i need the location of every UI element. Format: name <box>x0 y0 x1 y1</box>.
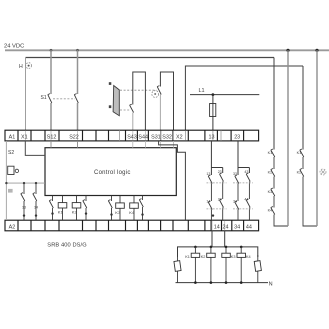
fuse F1 <box>210 104 216 117</box>
svg-text:S43: S43 <box>127 134 137 140</box>
wire loop S43-S44 <box>133 72 146 130</box>
svg-text:13: 13 <box>206 172 210 176</box>
contact reset tap 2 <box>33 183 37 220</box>
svg-text:24: 24 <box>223 224 229 230</box>
wire link dashed <box>233 182 253 184</box>
contact K2 aux <box>83 196 87 220</box>
svg-text:K2: K2 <box>72 210 78 215</box>
contact K2 out b <box>220 199 224 220</box>
svg-text:44: 44 <box>246 224 252 230</box>
wire N line <box>176 282 269 284</box>
node magnet marker b <box>109 105 112 108</box>
terminal row top <box>5 130 259 141</box>
contact K1 aux <box>49 196 53 220</box>
wire magnet link lower dashed <box>120 109 131 111</box>
contact K4 fb <box>271 207 288 227</box>
svg-text:N: N <box>269 281 273 287</box>
contact K4 aux <box>139 196 143 220</box>
svg-text:S2: S2 <box>8 150 14 156</box>
svg-text:44: 44 <box>244 198 248 202</box>
svg-text:23: 23 <box>218 170 222 174</box>
svg-text:K4: K4 <box>129 210 135 215</box>
svg-text:K4: K4 <box>246 255 251 259</box>
svg-text:13: 13 <box>209 134 215 140</box>
node junction L1-fuse <box>212 93 215 96</box>
wire load top line <box>178 247 258 257</box>
contact K2 out d <box>246 199 250 220</box>
coil K4 <box>133 196 135 220</box>
lamp H on X1 wire <box>19 63 32 70</box>
wire return to rail 2 <box>316 50 318 226</box>
control logic box U1 <box>45 148 176 196</box>
coil K4 load <box>240 247 242 283</box>
svg-text:24 VDC: 24 VDC <box>4 43 24 49</box>
wire 24 stub <box>224 231 226 247</box>
svg-text:A2: A2 <box>9 224 16 230</box>
coil K1 <box>62 196 64 220</box>
contact K1 out b <box>208 201 212 220</box>
wire A1-A2 left drop <box>5 141 7 220</box>
contact K1 out d <box>235 201 239 220</box>
wire link dashed <box>207 182 227 184</box>
output contact group 23-24 <box>233 141 253 220</box>
contact S1 channel 2 <box>74 94 78 103</box>
contact S2 upper on S31 leg <box>157 86 161 95</box>
svg-text:K4: K4 <box>268 208 273 212</box>
wire return to rail <box>287 50 289 226</box>
button S2 symbol <box>8 166 14 174</box>
contact reset tap 1 <box>21 183 25 220</box>
svg-text:43: 43 <box>244 170 248 174</box>
svg-text:S31: S31 <box>151 134 161 140</box>
svg-text:14: 14 <box>214 224 220 230</box>
svg-text:34: 34 <box>234 224 240 230</box>
varistor left <box>177 255 179 283</box>
contact K3 fb <box>271 188 275 208</box>
actuator magnet S2 parallelogram <box>113 86 119 116</box>
node junction right1 rail <box>286 49 289 52</box>
svg-text:33: 33 <box>233 172 237 176</box>
load circuit <box>174 231 273 287</box>
wire magnet link upper dashed <box>120 89 157 91</box>
svg-text:13: 13 <box>22 206 26 210</box>
contact S2 lower on S43 leg <box>130 104 134 112</box>
contact K2 out c <box>246 173 250 199</box>
svg-text:H: H <box>19 64 23 70</box>
contact K3 aux <box>108 196 112 220</box>
feedback chain X2 with K contacts <box>297 50 317 226</box>
coil K1 load <box>194 247 196 283</box>
terminal row bottom <box>5 220 259 231</box>
contact K2 fb2 <box>300 169 317 227</box>
svg-text:K2: K2 <box>297 170 302 174</box>
svg-text:14: 14 <box>34 206 38 210</box>
wire S12 drop <box>50 50 52 130</box>
svg-text:K2: K2 <box>268 170 273 174</box>
lamp right dashed circle <box>320 169 326 175</box>
contact K1 out c <box>235 175 239 201</box>
svg-text:S12: S12 <box>47 134 57 140</box>
svg-text:S44: S44 <box>138 134 148 140</box>
svg-text:SRB 400 DS/G: SRB 400 DS/G <box>47 243 86 249</box>
button S2 plunger <box>8 189 13 193</box>
svg-text:X2: X2 <box>176 134 183 140</box>
svg-text:S22: S22 <box>69 134 79 140</box>
lamp indicator near S31 contact dashed circle <box>152 91 159 98</box>
svg-text:X1: X1 <box>21 134 28 140</box>
svg-text:K3: K3 <box>231 255 236 259</box>
contact K1 out a <box>208 175 212 201</box>
svg-text:24: 24 <box>218 198 222 202</box>
wire loop S31-S32 <box>160 72 173 130</box>
wire step X2 area <box>159 141 186 220</box>
wire X1 into box <box>25 141 45 155</box>
output contact group 13-14 <box>206 141 226 220</box>
wire 14 stub <box>211 231 213 247</box>
node junction S12 rail <box>50 49 53 52</box>
svg-text:L1: L1 <box>199 88 205 94</box>
svg-text:K1: K1 <box>268 151 273 155</box>
svg-text:23: 23 <box>234 134 240 140</box>
coil K3 <box>119 196 121 220</box>
wire fuse drop to 13 <box>212 95 214 130</box>
svg-text:K1: K1 <box>58 210 64 215</box>
coil K3 load <box>225 247 227 283</box>
contact K1 fb2 <box>300 149 304 169</box>
svg-text:14: 14 <box>206 200 210 204</box>
contact K2 fb <box>271 169 275 189</box>
contact K2 out a <box>220 173 224 199</box>
node magnet marker a <box>109 82 112 85</box>
wire X2 riser <box>185 66 303 130</box>
contact K1 fb <box>271 149 275 169</box>
wire L1 line <box>190 94 259 96</box>
svg-text:Control logic: Control logic <box>94 170 131 176</box>
svg-text:34: 34 <box>233 200 237 204</box>
svg-text:K3: K3 <box>268 190 273 194</box>
coil K2 load <box>210 247 212 283</box>
svg-text:A1: A1 <box>9 134 16 140</box>
svg-text:K2: K2 <box>201 255 206 259</box>
svg-text:K1: K1 <box>185 255 190 259</box>
wire S22 drop <box>77 50 79 130</box>
varistor right <box>257 255 259 283</box>
svg-text:K1: K1 <box>297 151 302 155</box>
wire X1 feedback top horizontal <box>26 57 275 59</box>
relay drops under box <box>49 196 143 220</box>
contact S1 channel 1 <box>48 94 52 103</box>
feedback chain X1 with K contacts <box>268 50 288 226</box>
wire S1 mechanical link dashed <box>53 98 75 100</box>
coil K2 <box>76 196 78 220</box>
wire 24VDC supply rail <box>5 49 329 51</box>
svg-text:S1: S1 <box>41 95 47 101</box>
wire reset branch horizontal <box>6 182 45 184</box>
node junction right2 rail <box>315 49 318 52</box>
node junction S22 rail <box>76 49 79 52</box>
svg-text:S32: S32 <box>162 134 172 140</box>
svg-text:K3: K3 <box>115 210 121 215</box>
